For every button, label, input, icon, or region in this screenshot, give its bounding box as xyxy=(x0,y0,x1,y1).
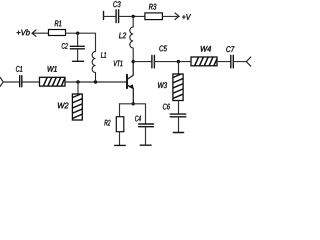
R2 bottom lead xyxy=(119,132,121,145)
wire node to W2 xyxy=(77,82,79,94)
C3 left terminal bar xyxy=(103,12,105,20)
node top rail xyxy=(132,15,135,18)
node base/W2 xyxy=(76,80,79,83)
wire bar to C3 xyxy=(104,15,116,17)
wire emitter to R2 bend xyxy=(120,103,134,105)
wire input to C1 xyxy=(3,81,19,83)
C2 bottom lead xyxy=(77,49,79,61)
label +Vb xyxy=(17,29,30,35)
+Vb arrow xyxy=(32,30,49,36)
transistor VT1 collector xyxy=(128,62,134,79)
capacitor C1 xyxy=(20,76,22,87)
capacitor C4 xyxy=(139,124,154,127)
label W3 xyxy=(158,82,167,88)
wire node down to W3 xyxy=(178,62,180,74)
capacitor C5 xyxy=(152,56,155,68)
label R3 xyxy=(149,4,156,10)
resistor R2 xyxy=(116,117,124,132)
C2 end bar xyxy=(73,60,84,62)
wire R1 to L1 corner xyxy=(66,33,96,51)
+V arrow xyxy=(175,13,179,20)
label C6 xyxy=(163,104,170,110)
label C2 xyxy=(62,43,68,49)
microstrip W4 xyxy=(191,57,217,66)
label C7 xyxy=(226,46,234,52)
capacitor C6 xyxy=(170,114,186,117)
input terminal xyxy=(0,77,3,86)
label C1 xyxy=(16,66,22,72)
node W3/W4 xyxy=(177,60,180,63)
label L2 xyxy=(119,32,126,38)
node L1 bottom xyxy=(94,80,97,83)
C6 bottom lead xyxy=(178,117,180,132)
transistor VT1 base bar xyxy=(126,75,128,88)
node R1/C2 xyxy=(76,32,79,35)
C6 ground bar xyxy=(173,132,183,134)
wire W1 to base xyxy=(65,81,126,83)
wire C5 to W4 xyxy=(155,61,191,63)
microstrip W3 xyxy=(173,74,183,101)
wire C7 to output xyxy=(234,61,247,63)
wire collector to C5 xyxy=(133,61,151,63)
label R2 xyxy=(104,120,110,126)
wire R3 to arrow xyxy=(163,15,180,17)
inductor L2 xyxy=(130,27,133,62)
wire node down to L2 xyxy=(132,16,134,27)
transistor VT1 emitter xyxy=(128,85,134,104)
output terminal xyxy=(246,57,251,66)
wire C3 to R3 xyxy=(119,15,145,17)
R2 ground bar xyxy=(115,144,126,146)
inductor L1 xyxy=(92,52,95,83)
capacitor C2 xyxy=(70,46,84,49)
C4 ground bar xyxy=(140,144,151,146)
label +V xyxy=(182,14,191,20)
label R1 xyxy=(55,21,62,27)
microstrip W2 xyxy=(72,94,82,120)
node collector xyxy=(132,60,135,63)
microstrip W1 xyxy=(40,77,66,86)
wire node down to C2 xyxy=(77,33,79,46)
resistor R1 xyxy=(49,30,66,36)
capacitor C3 xyxy=(116,10,119,23)
wire W3 to C6 xyxy=(178,101,180,114)
node emitter xyxy=(132,102,135,105)
capacitor C7 xyxy=(231,55,234,68)
C4 bottom lead xyxy=(145,127,147,145)
wire C1 to W1 xyxy=(23,81,40,83)
label L1 xyxy=(101,52,106,58)
label W4 xyxy=(201,46,211,52)
wire emitter to C4 xyxy=(133,104,145,124)
wire W4 to C7 xyxy=(217,61,230,63)
label C4 xyxy=(135,116,141,122)
label C3 xyxy=(113,1,120,7)
label VT1 xyxy=(114,61,123,67)
emitter arrowhead xyxy=(128,84,134,89)
label W2 xyxy=(58,103,69,109)
label C5 xyxy=(159,45,167,51)
label W1 xyxy=(48,66,57,72)
wire down to R2 xyxy=(119,104,121,117)
resistor R3 xyxy=(145,13,163,20)
